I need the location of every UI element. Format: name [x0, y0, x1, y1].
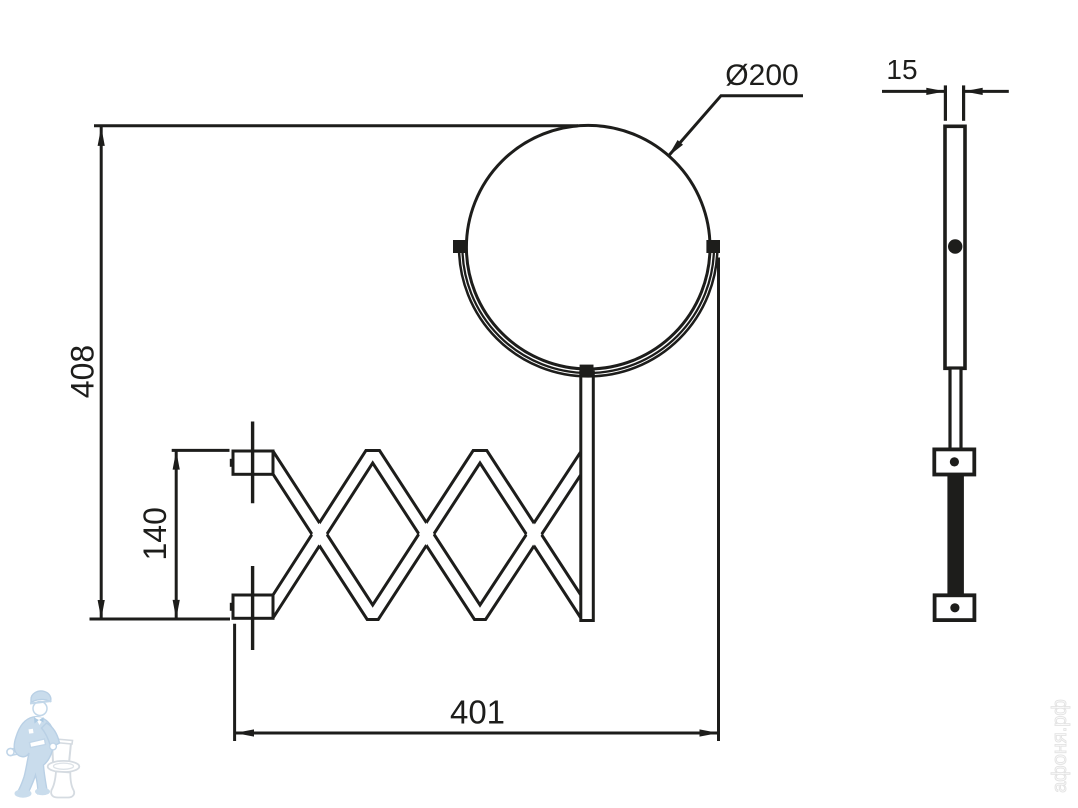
wrench in right hand: [30, 739, 46, 748]
bracket pin dot upper (side): [950, 457, 959, 466]
svg-text:140: 140: [137, 507, 173, 560]
extension line 140 top: [172, 449, 230, 452]
plumber right arm on tank: [42, 723, 60, 748]
plumber cap: [31, 691, 51, 703]
leader line O200: [668, 96, 803, 157]
mirror circle (front view): [466, 125, 710, 369]
wall bracket upper (front): [233, 451, 273, 474]
arrow 140 top: [173, 451, 180, 470]
arrow 15 right: [964, 88, 983, 95]
dim line 15 right: [964, 90, 1009, 93]
stem tube (front view): [581, 372, 594, 621]
stem narrow (side): [950, 368, 961, 451]
plumber shoes: [15, 789, 32, 797]
extension line 401 left: [233, 624, 236, 741]
svg-text:401: 401: [450, 694, 505, 731]
arrow 140 bottom: [173, 600, 180, 619]
plumber legs and body: [14, 717, 54, 796]
mirror pivot dot (side): [948, 239, 962, 253]
dim line 140: [175, 451, 178, 619]
stem clamp block: [580, 365, 594, 376]
mirror edge rect (side): [945, 126, 965, 368]
scissor folded bar (side): [947, 475, 964, 596]
dim line 401: [235, 732, 719, 735]
arrow 15 left: [926, 88, 945, 95]
svg-text:Ø200: Ø200: [725, 59, 798, 92]
mirror pivot block left: [453, 240, 468, 253]
extension line top (mirror top): [94, 124, 578, 127]
arrow 401 left: [235, 729, 254, 736]
arrow 408 bottom: [98, 600, 105, 619]
svg-text:афоня.рф: афоня.рф: [1049, 699, 1071, 793]
holder half-ring arc outer: [459, 247, 717, 376]
wall bracket lower (side): [935, 595, 975, 620]
extension line 401 right: [717, 258, 720, 742]
bracket centerline upper: [251, 422, 254, 504]
svg-text:15: 15: [886, 54, 917, 85]
arrow 401 right: [700, 729, 719, 736]
arrow 408 top: [98, 127, 105, 146]
wall bracket lower (front): [233, 595, 273, 618]
tick 15 right: [962, 85, 965, 120]
bracket pin nub lower: [230, 603, 233, 611]
extension line bottom left: [90, 618, 231, 621]
toilet bowl rim: [48, 761, 80, 772]
bracket pin dot lower (side): [950, 603, 959, 612]
tick 15 left: [944, 85, 947, 120]
bracket pin nub upper: [230, 459, 233, 467]
wall bracket upper (side): [934, 449, 974, 474]
scissor band B (lower-left to upper-right zigzag): [273, 451, 581, 620]
scissor band A (upper-left to lower-right zigzag): [273, 451, 581, 620]
shirt and bow tie: [35, 717, 44, 725]
plumber face: [33, 702, 47, 716]
svg-text:408: 408: [65, 345, 101, 398]
dim line 408: [100, 127, 103, 619]
toilet tank: [52, 741, 71, 763]
mirror pivot block right: [706, 240, 720, 253]
toilet base: [51, 772, 74, 798]
bracket centerline lower: [251, 566, 254, 650]
dim line 15 left: [882, 90, 945, 93]
plumber wrench left: [9, 746, 29, 756]
pocket square: [29, 729, 34, 734]
watermark plumber logo: [7, 691, 79, 798]
arrow leader O200: [668, 140, 683, 157]
holder half-ring arc inner: [462, 247, 714, 373]
